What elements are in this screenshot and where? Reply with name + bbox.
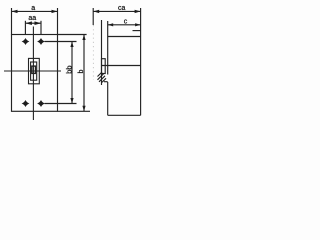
mounting hole diamond bottom-left	[22, 100, 30, 107]
connector inner rect	[31, 62, 37, 80]
dimension b line	[83, 35, 85, 112]
mounting hole diamond top-left	[22, 38, 30, 45]
dimension bb line	[71, 42, 73, 104]
internal seam middle	[102, 65, 141, 67]
dimension ca line	[93, 10, 140, 12]
arrow bb bottom	[70, 98, 73, 104]
extension line top right (b)	[58, 34, 87, 36]
svg-text:bb: bb	[65, 65, 74, 73]
svg-text:b: b	[78, 69, 85, 73]
internal seam top	[108, 36, 141, 38]
arrow c left	[108, 23, 114, 26]
rail clip bottom stub	[104, 81, 108, 83]
dimension a extension left	[11, 8, 13, 35]
dimension a line	[12, 10, 58, 12]
arrow b bottom	[82, 106, 85, 112]
side body right edge	[140, 8, 142, 115]
mounting hole diamond top-right	[37, 38, 45, 45]
side body front edge upper	[107, 21, 109, 75]
top-right step line	[133, 30, 141, 32]
extension line bottom right (b)	[58, 110, 91, 112]
mounting hole diamond bottom-right	[37, 100, 45, 107]
arrow ca right	[135, 10, 141, 13]
dimension ca extension left	[92, 8, 94, 25]
connector small rect	[32, 66, 36, 73]
svg-text:c: c	[124, 18, 128, 25]
center line horizontal	[4, 70, 61, 72]
arrow bb top	[70, 42, 73, 48]
din rail dashed line	[92, 25, 94, 80]
flange front line	[101, 20, 103, 85]
dimension a extension right	[57, 8, 59, 35]
extension line hole row bottom (bb)	[45, 103, 77, 105]
svg-text:a: a	[31, 5, 35, 12]
body outline front view	[12, 35, 58, 112]
mechanical dimension drawing: front view (left) and side view (right)	[0, 0, 150, 124]
arrow ca left	[93, 10, 99, 13]
connector outer rect	[29, 58, 40, 83]
dimension aa line	[25, 22, 41, 24]
svg-text:aa: aa	[28, 15, 36, 22]
side body front edge lower	[107, 82, 109, 115]
arrow a left	[12, 10, 18, 13]
dimension aa extension right	[40, 21, 42, 35]
arrow b top	[82, 35, 85, 41]
arrow aa left	[25, 21, 32, 25]
rail hatching	[98, 72, 107, 82]
side body bottom	[108, 114, 141, 116]
arrow a right	[52, 10, 58, 13]
center line vertical	[32, 27, 34, 121]
dimension c line	[108, 24, 141, 26]
svg-text:ca: ca	[118, 5, 126, 12]
dimension aa extension left	[24, 21, 26, 35]
extension line hole row top (bb)	[45, 41, 77, 43]
arrow aa right	[35, 21, 42, 25]
arrow c right	[135, 23, 141, 26]
din rail box	[102, 59, 106, 74]
